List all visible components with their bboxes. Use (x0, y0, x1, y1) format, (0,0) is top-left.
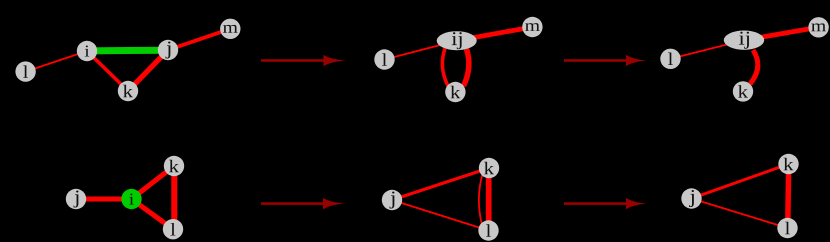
row2 graph2: edge j-l (392, 200, 489, 231)
row2 graph3: node k (778, 154, 798, 174)
row2 graph2: node k (479, 158, 499, 178)
row2 graph2: edge k-l (thick) (486, 168, 492, 231)
row2 graph1: node i (green, deleted vertex) (121, 189, 141, 209)
row1 graph1: edge i-k (87, 51, 128, 91)
row1 graph3: edge ij-m (744, 27, 819, 40)
row1 graph3: node m (808, 17, 828, 37)
arrow row1 right (564, 55, 647, 67)
row2 graph2: node l (478, 220, 498, 240)
row1 graph2: node l (374, 49, 394, 69)
arrow row1 left (261, 55, 346, 67)
row1 graph1: node m (220, 19, 240, 39)
row2 graph3: edge k-l (788, 164, 789, 228)
row1 graph2: node k (445, 82, 465, 102)
row1 graph1: node k (118, 81, 138, 101)
row1 graph2: parallel edge ij-k left arc (442, 49, 448, 87)
row1 graph3: node k (733, 81, 753, 101)
row1 graph3: edge ij-k (curved) (750, 50, 758, 84)
row1 graph3: node l (660, 49, 680, 69)
row2 graph2: edge j-k (392, 168, 489, 200)
row2 graph1: node k (164, 156, 184, 176)
row2 graph2: node j (382, 190, 402, 210)
row1 graph2: edge l-ij (385, 41, 457, 60)
row2 graph1: node j (66, 189, 86, 209)
row2 graph2: parallel edge k-l (curved) (479, 174, 483, 225)
row1 graph1: edge j-k (128, 50, 168, 91)
row1 graph3: node ij (724, 31, 764, 50)
row2 graph1: edge i-l (132, 199, 174, 229)
row1 graph2: parallel edge ij-k right arc (464, 49, 469, 86)
arrow row2 left (261, 198, 345, 210)
row2 graph3: node j (681, 188, 701, 208)
row2 graph3: edge j-k (692, 164, 789, 199)
row1 graph1: edge i-j (green, contracted edge) (87, 47, 168, 55)
row2 graph3: node l (777, 218, 797, 238)
row1 graph2: node m (522, 17, 542, 37)
row1 graph2: edge ij-m (457, 27, 533, 41)
row1 graph1: node i (77, 41, 97, 61)
row1 graph2: node ij (contracted vertex) (437, 31, 477, 50)
row1 graph1: node l (15, 61, 35, 81)
row1 graph1: edge j-m (168, 29, 230, 50)
row1 graph1: edge l-i (26, 51, 87, 72)
row2 graph3: edge j-l (692, 199, 788, 229)
row2 graph1: edge i-k (132, 166, 175, 199)
row1 graph1: node j (158, 40, 178, 60)
arrow row2 right (564, 198, 647, 210)
row2 graph1: node l (163, 219, 183, 239)
row2 graph1: edge j-i (76, 197, 132, 202)
row1 graph3: edge l-ij (671, 40, 745, 59)
row2 graph1: edge k-l (171, 166, 177, 229)
